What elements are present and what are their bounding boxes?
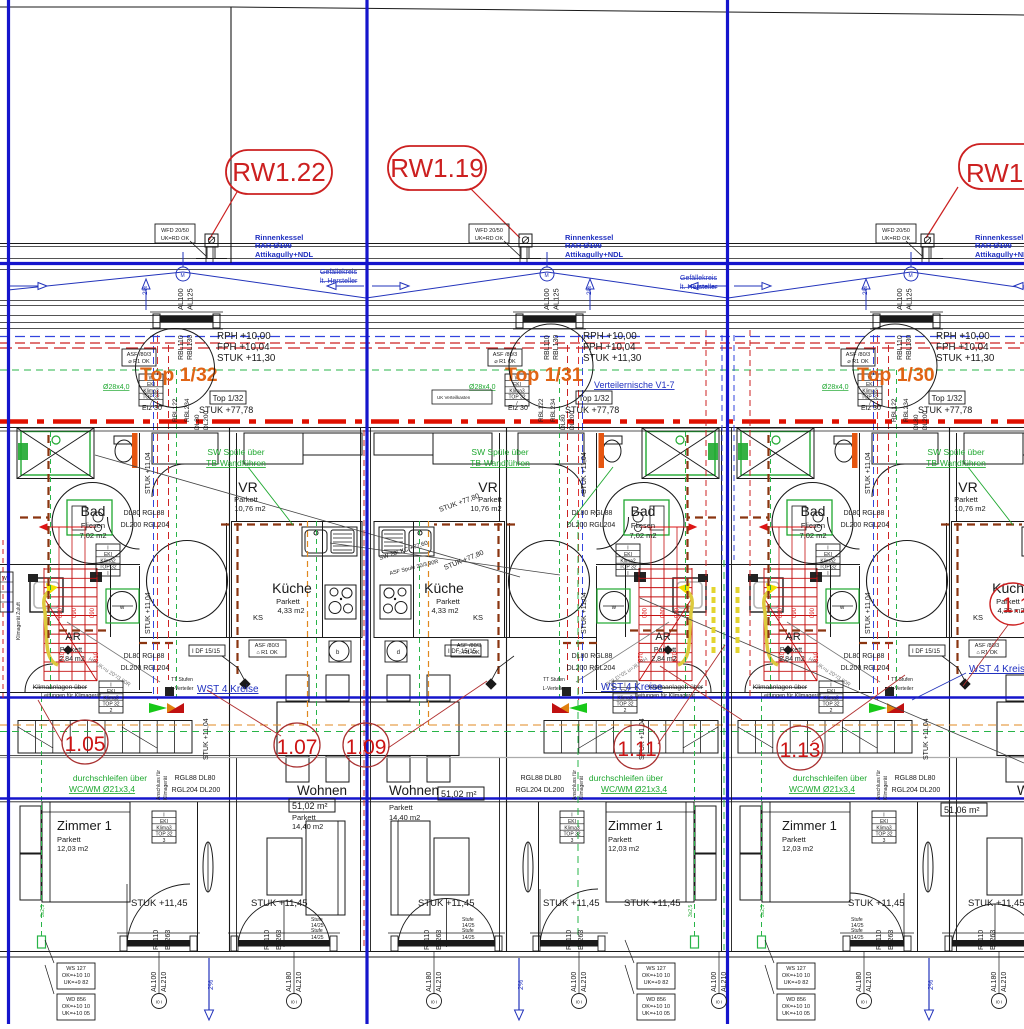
svg-text:AL210: AL210 [296, 972, 303, 992]
svg-text:Klimagerät: Klimagerät [163, 775, 169, 800]
svg-text:UK=RD OK: UK=RD OK [161, 236, 190, 242]
svg-text:STUK +11,04: STUK +11,04 [865, 452, 872, 494]
svg-text:2%: 2% [928, 980, 935, 990]
svg-text:ASF /80/3: ASF /80/3 [457, 643, 481, 649]
svg-text:RBL122: RBL122 [538, 398, 545, 422]
svg-text:Anschluss für: Anschluss für [876, 770, 882, 800]
svg-text:2%: 2% [518, 980, 525, 990]
svg-text:2: 2 [830, 708, 833, 714]
svg-text:Zimmer 1: Zimmer 1 [608, 818, 663, 833]
svg-text:UK=+9 82: UK=+9 82 [784, 980, 809, 986]
svg-text:1.1: 1.1 [1002, 594, 1024, 617]
svg-text:UK=+10 05: UK=+10 05 [642, 1011, 670, 1017]
svg-text:STUK +11,04: STUK +11,04 [581, 452, 588, 494]
svg-text:UK=+10 05: UK=+10 05 [782, 1011, 810, 1017]
svg-text:SW Spüle über: SW Spüle über [207, 447, 264, 457]
svg-text:durchschleifen über: durchschleifen über [793, 773, 867, 783]
svg-text:14/25: 14/25 [311, 935, 324, 941]
svg-text:VR: VR [238, 479, 257, 495]
svg-text:14,40 m2: 14,40 m2 [389, 813, 420, 822]
svg-text:DL200 RGL204: DL200 RGL204 [841, 665, 890, 672]
svg-text:Parkett: Parkett [276, 597, 301, 606]
svg-text:STUK +77,78: STUK +77,78 [565, 405, 619, 415]
svg-text:RAR Ø100: RAR Ø100 [255, 241, 292, 250]
svg-text:I DF 15/15: I DF 15/15 [912, 649, 941, 655]
svg-text:L-Verteiler: L-Verteiler [891, 686, 914, 692]
svg-text:Leitungen für Klimagerät: Leitungen für Klimagerät [41, 693, 101, 699]
svg-text:STUK +11,04: STUK +11,04 [145, 592, 152, 634]
svg-text:Parkett: Parkett [780, 647, 802, 654]
svg-text:WD 856: WD 856 [786, 997, 806, 1003]
svg-text:Parkett: Parkett [389, 803, 414, 812]
svg-text:RL110: RL110 [153, 930, 160, 950]
svg-text:lt. Hersteller: lt. Hersteller [680, 284, 718, 291]
svg-text:12,03 m2: 12,03 m2 [782, 844, 813, 853]
svg-text:Fliesen: Fliesen [81, 521, 105, 530]
svg-text:TB-Wandführen: TB-Wandführen [206, 458, 266, 468]
svg-text:AL180: AL180 [426, 972, 433, 992]
svg-text:I0 I: I0 I [996, 1000, 1002, 1005]
svg-text:STUK +11,45: STUK +11,45 [848, 898, 905, 909]
svg-text:7,02 m2: 7,02 m2 [79, 531, 106, 540]
svg-text:Fliesen: Fliesen [631, 521, 655, 530]
svg-text:RL110: RL110 [566, 930, 573, 950]
svg-text:Klimagerät: Klimagerät [883, 775, 889, 800]
svg-text:DL80: DL80 [194, 414, 201, 430]
svg-text:Bad: Bad [81, 503, 106, 519]
svg-text:DL80 RGL88: DL80 RGL88 [124, 510, 165, 517]
svg-text:UK Verteilkasten: UK Verteilkasten [437, 395, 471, 400]
svg-text:Leitungen für Klimagerät: Leitungen für Klimagerät [635, 693, 695, 699]
svg-text:AL125: AL125 [186, 288, 195, 310]
svg-text:Top 1/32: Top 1/32 [140, 364, 218, 386]
svg-text:10,76 m2: 10,76 m2 [954, 504, 985, 513]
svg-text:Küche: Küche [424, 580, 464, 596]
svg-text:STUK +11,04: STUK +11,04 [865, 592, 872, 634]
svg-text:RBL234: RBL234 [903, 398, 910, 422]
svg-text:AL125: AL125 [552, 288, 561, 310]
svg-text:2%: 2% [142, 285, 149, 295]
svg-text:Leitungen für Klimagerät: Leitungen für Klimagerät [761, 693, 821, 699]
svg-text:Parkett: Parkett [57, 835, 82, 844]
svg-text:Etz 30: Etz 30 [508, 405, 528, 412]
svg-text:DL200 RGL204: DL200 RGL204 [121, 665, 170, 672]
svg-text:2,84 m2: 2,84 m2 [651, 656, 676, 663]
svg-text:AL100: AL100 [542, 288, 551, 310]
svg-text:4,33 m2: 4,33 m2 [431, 606, 458, 615]
svg-text:Bad: Bad [631, 503, 656, 519]
svg-text:RGL88 DL80: RGL88 DL80 [521, 775, 562, 782]
svg-text:AL100: AL100 [571, 972, 578, 992]
svg-text:Bad: Bad [801, 503, 826, 519]
svg-text:BL263: BL263 [888, 930, 895, 950]
svg-text:1.09: 1.09 [346, 736, 387, 759]
svg-text:OK=+10 10: OK=+10 10 [642, 1004, 670, 1010]
svg-text:Top 1/31: Top 1/31 [505, 364, 583, 386]
svg-text:AL210: AL210 [161, 972, 168, 992]
svg-text:UK=RD OK: UK=RD OK [475, 236, 504, 242]
svg-text:AL210: AL210 [866, 972, 873, 992]
svg-text:Parkett: Parkett [954, 495, 979, 504]
svg-text:Attikagully+NDL: Attikagully+NDL [565, 250, 624, 259]
svg-text:I: I [107, 571, 108, 577]
svg-text:12,03 m2: 12,03 m2 [57, 844, 88, 853]
svg-text:STUK +11,30: STUK +11,30 [936, 353, 995, 364]
svg-text:OK=+10 10: OK=+10 10 [782, 973, 810, 979]
svg-text:ASF /80/3: ASF /80/3 [846, 352, 870, 358]
svg-text:Verteilernische V1-7: Verteilernische V1-7 [594, 380, 675, 390]
svg-text:51,02 m²: 51,02 m² [292, 801, 328, 811]
svg-text:VR: VR [958, 479, 977, 495]
svg-text:UK=+9 82: UK=+9 82 [64, 980, 89, 986]
svg-text:DL80 RGL88: DL80 RGL88 [124, 653, 165, 660]
svg-text:RBL110: RBL110 [544, 335, 551, 360]
svg-text:AL210: AL210 [1001, 972, 1008, 992]
svg-text:BL263: BL263 [990, 930, 997, 950]
svg-text:BL263: BL263 [436, 930, 443, 950]
svg-text:RW1.22: RW1.22 [232, 157, 325, 187]
svg-text:DL200 RGL204: DL200 RGL204 [841, 522, 890, 529]
svg-text:RBL130: RBL130 [553, 335, 560, 360]
svg-text:RBL234: RBL234 [550, 398, 557, 422]
svg-text:RPH +10,00: RPH +10,00 [217, 331, 271, 342]
svg-text:RBL110: RBL110 [897, 335, 904, 360]
svg-text:Klimagerät Zuluft: Klimagerät Zuluft [16, 602, 22, 640]
svg-text:AL100: AL100 [895, 288, 904, 310]
svg-text:1.11: 1.11 [617, 738, 656, 761]
svg-text:2,84 m2: 2,84 m2 [59, 656, 84, 663]
svg-text:VR: VR [478, 479, 497, 495]
svg-text:UK=+9 82: UK=+9 82 [644, 980, 669, 986]
svg-text:AR: AR [785, 631, 800, 643]
svg-text:TB-Wandführen: TB-Wandführen [470, 458, 530, 468]
svg-text:RAR Ø100: RAR Ø100 [565, 241, 602, 250]
svg-text:AL210: AL210 [436, 972, 443, 992]
svg-text:RBL234: RBL234 [184, 398, 191, 422]
svg-text:OK=+10 10: OK=+10 10 [62, 973, 90, 979]
svg-text:Fliesen: Fliesen [801, 521, 825, 530]
svg-text:FPH +10,04: FPH +10,04 [583, 342, 636, 353]
svg-text:Zimmer 1: Zimmer 1 [57, 818, 112, 833]
svg-text:ASF /80/3: ASF /80/3 [493, 352, 517, 358]
svg-text:RGL88 DL80: RGL88 DL80 [175, 775, 216, 782]
svg-text:RGL204 DL200: RGL204 DL200 [172, 787, 221, 794]
svg-text:KS: KS [473, 613, 483, 622]
svg-text:RGL88 DL80: RGL88 DL80 [895, 775, 936, 782]
svg-text:WFD 20/50: WFD 20/50 [882, 228, 910, 234]
svg-text:RW1.1: RW1.1 [966, 158, 1024, 188]
svg-text:RPH +10,00: RPH +10,00 [936, 331, 990, 342]
svg-text:Attikagully+NDL: Attikagully+NDL [975, 250, 1024, 259]
svg-text:KS: KS [973, 613, 983, 622]
svg-text:Top 1/32: Top 1/32 [579, 394, 610, 403]
svg-text:3x2,5: 3x2,5 [40, 905, 46, 917]
svg-text:⌂ R1 OK: ⌂ R1 OK [256, 650, 278, 656]
svg-text:Anschluss für: Anschluss für [572, 770, 578, 800]
svg-text:TT Stufen: TT Stufen [891, 677, 913, 683]
svg-text:Etz 30: Etz 30 [142, 405, 162, 412]
svg-text:WFD 20/50: WFD 20/50 [475, 228, 503, 234]
svg-text:14/25: 14/25 [462, 935, 475, 941]
svg-text:14/25: 14/25 [462, 923, 475, 929]
svg-text:1.13: 1.13 [780, 739, 821, 762]
svg-text:Klimagerät: Klimagerät [579, 775, 585, 800]
svg-text:2%: 2% [862, 285, 869, 295]
svg-text:DL200 RGL204: DL200 RGL204 [567, 665, 616, 672]
svg-text:Parkett: Parkett [608, 835, 633, 844]
svg-text:M: M [181, 273, 185, 279]
svg-text:RL110: RL110 [264, 930, 271, 950]
svg-text:Top 1/32: Top 1/32 [213, 394, 244, 403]
svg-text:STUK +11,04: STUK +11,04 [145, 452, 152, 494]
svg-text:AL100: AL100 [711, 972, 718, 992]
svg-text:Wohnen: Wohnen [1017, 783, 1024, 798]
svg-text:WD 856: WD 856 [646, 997, 666, 1003]
svg-text:RGL204 DL200: RGL204 DL200 [892, 787, 941, 794]
svg-text:STUK +11,04: STUK +11,04 [203, 718, 210, 760]
svg-text:Anschluss für: Anschluss für [156, 770, 162, 800]
svg-text:RBL130: RBL130 [906, 335, 913, 360]
svg-text:14/25: 14/25 [311, 923, 324, 929]
svg-text:WST 4 Kreise: WST 4 Kreise [197, 684, 259, 695]
svg-text:Parkett: Parkett [60, 647, 82, 654]
svg-text:14,40 m2: 14,40 m2 [292, 822, 323, 831]
svg-text:AL180: AL180 [286, 972, 293, 992]
svg-text:AR: AR [655, 631, 670, 643]
svg-text:51,06 m²: 51,06 m² [944, 805, 980, 815]
svg-text:AL100: AL100 [151, 972, 158, 992]
svg-text:RGL204 DL200: RGL204 DL200 [516, 787, 565, 794]
svg-text:M: M [909, 273, 913, 279]
svg-text:RPH +10,00: RPH +10,00 [583, 331, 637, 342]
svg-text:1.05: 1.05 [65, 733, 106, 756]
svg-text:Etz 30: Etz 30 [861, 405, 881, 412]
svg-text:I0 I: I0 I [861, 1000, 867, 1005]
svg-text:DL80: DL80 [913, 414, 920, 430]
svg-text:ASF /80/3: ASF /80/3 [255, 643, 279, 649]
svg-text:I0 I: I0 I [716, 1000, 722, 1005]
svg-text:TT Stufen: TT Stufen [543, 677, 565, 683]
svg-text:51,02 m²: 51,02 m² [441, 789, 477, 799]
svg-text:WFD 20/50: WFD 20/50 [161, 228, 189, 234]
svg-text:Klimaanlagen über: Klimaanlagen über [33, 684, 88, 691]
svg-text:durchschleifen über: durchschleifen über [73, 773, 147, 783]
svg-text:DL80 RGL88: DL80 RGL88 [572, 510, 613, 517]
svg-text:WC/WM Ø21x3,4: WC/WM Ø21x3,4 [601, 784, 667, 794]
svg-text:WC/WM Ø21x3,4: WC/WM Ø21x3,4 [69, 784, 135, 794]
svg-text:AL210: AL210 [581, 972, 588, 992]
svg-text:DL80 RGL88: DL80 RGL88 [844, 510, 885, 517]
svg-text:14/25: 14/25 [851, 923, 864, 929]
svg-text:DL200 RGL204: DL200 RGL204 [121, 522, 170, 529]
svg-text:Ø28x4,0: Ø28x4,0 [103, 384, 130, 391]
svg-text:RBL110: RBL110 [178, 335, 185, 360]
svg-text:Wohnen: Wohnen [389, 783, 439, 798]
svg-text:AL210: AL210 [721, 972, 728, 992]
svg-text:I: I [627, 571, 628, 577]
svg-text:2: 2 [624, 708, 627, 714]
svg-text:WS 127: WS 127 [66, 966, 86, 972]
svg-text:RL110: RL110 [876, 930, 883, 950]
svg-text:M: M [545, 273, 549, 279]
svg-text:AL180: AL180 [856, 972, 863, 992]
svg-text:STUK +11,04: STUK +11,04 [581, 592, 588, 634]
svg-text:Parkett: Parkett [234, 495, 259, 504]
svg-text:2,84 m2: 2,84 m2 [779, 656, 804, 663]
svg-text:KS: KS [253, 613, 263, 622]
svg-text:4,33 m2: 4,33 m2 [277, 606, 304, 615]
svg-text:DL80: DL80 [560, 414, 567, 430]
svg-text:I0 I: I0 I [576, 1000, 582, 1005]
svg-text:Attikagully+NDL: Attikagully+NDL [255, 250, 314, 259]
svg-text:I: I [827, 571, 828, 577]
svg-text:STUK +11,04: STUK +11,04 [923, 718, 930, 760]
svg-text:ASF /80/3: ASF /80/3 [975, 643, 999, 649]
svg-text:durchschleifen über: durchschleifen über [589, 773, 663, 783]
svg-text:SW Spüle über: SW Spüle über [471, 447, 528, 457]
svg-text:BL263: BL263 [165, 930, 172, 950]
svg-text:OK=+10 10: OK=+10 10 [642, 973, 670, 979]
svg-text:DL200 RGL204: DL200 RGL204 [567, 522, 616, 529]
svg-text:STUK +11,45: STUK +11,45 [418, 898, 475, 909]
svg-text:3x2,5: 3x2,5 [760, 905, 766, 917]
svg-text:Ø28x4,0: Ø28x4,0 [822, 384, 849, 391]
svg-text:7,02 m2: 7,02 m2 [799, 531, 826, 540]
svg-text:7,02 m2: 7,02 m2 [629, 531, 656, 540]
svg-text:3: 3 [163, 838, 166, 844]
svg-text:RW1.19: RW1.19 [390, 153, 483, 183]
svg-text:lt. Hersteller: lt. Hersteller [320, 278, 358, 285]
svg-text:⌂ R1 OK: ⌂ R1 OK [458, 650, 480, 656]
svg-text:L-Verteiler: L-Verteiler [171, 686, 194, 692]
svg-text:L-Verteiler: L-Verteiler [543, 686, 566, 692]
svg-text:Gefällekreis: Gefällekreis [680, 275, 717, 282]
svg-text:Gefällekreis: Gefällekreis [320, 269, 357, 276]
svg-text:3: 3 [571, 838, 574, 844]
svg-text:TB-Wandführen: TB-Wandführen [926, 458, 986, 468]
svg-text:TT Stufen: TT Stufen [171, 677, 193, 683]
svg-text:UK=+10 05: UK=+10 05 [62, 1011, 90, 1017]
svg-text:Küche: Küche [272, 580, 312, 596]
svg-text:Parkett: Parkett [436, 597, 461, 606]
svg-text:AR: AR [65, 631, 80, 643]
svg-text:Wohnen: Wohnen [297, 783, 347, 798]
svg-text:FPH +10,04: FPH +10,04 [217, 342, 270, 353]
svg-text:3: 3 [883, 838, 886, 844]
svg-text:OK=+10 10: OK=+10 10 [62, 1004, 90, 1010]
svg-text:I DF 15/15: I DF 15/15 [192, 649, 221, 655]
svg-text:Top 1/32: Top 1/32 [932, 394, 963, 403]
svg-text:14/25: 14/25 [851, 935, 864, 941]
svg-text:2: 2 [110, 708, 113, 714]
svg-text:FPH +10,04: FPH +10,04 [936, 342, 989, 353]
svg-text:AL180: AL180 [991, 972, 998, 992]
svg-text:3x2,5: 3x2,5 [688, 905, 694, 917]
svg-text:I0 I: I0 I [156, 1000, 162, 1005]
svg-text:I0 I: I0 I [431, 1000, 437, 1005]
svg-text:Parkett: Parkett [782, 835, 807, 844]
svg-text:WST 4 Kreise: WST 4 Kreise [969, 664, 1024, 675]
svg-text:WS 127: WS 127 [786, 966, 806, 972]
svg-text:RL110: RL110 [424, 930, 431, 950]
svg-text:WST 4 Kreise: WST 4 Kreise [601, 682, 663, 693]
svg-text:Parkett: Parkett [292, 813, 317, 822]
svg-text:Klimaanlagen über: Klimaanlagen über [753, 684, 808, 691]
svg-text:I0 I: I0 I [291, 1000, 297, 1005]
svg-text:RBL122: RBL122 [172, 398, 179, 422]
svg-text:Zimmer 1: Zimmer 1 [782, 818, 837, 833]
svg-text:RAR Ø100: RAR Ø100 [975, 241, 1012, 250]
svg-text:STUK +11,45: STUK +11,45 [543, 898, 600, 909]
svg-text:DL80 RGL88: DL80 RGL88 [844, 653, 885, 660]
svg-text:RL110: RL110 [978, 930, 985, 950]
svg-text:STUK +11,30: STUK +11,30 [217, 353, 276, 364]
svg-text:WS 127: WS 127 [646, 966, 666, 972]
svg-text:OK=+10 10: OK=+10 10 [782, 1004, 810, 1010]
svg-text:AL125: AL125 [905, 288, 914, 310]
svg-text:BL263: BL263 [578, 930, 585, 950]
svg-text:STUK +11,45: STUK +11,45 [968, 898, 1024, 909]
svg-text:STUK +77,78: STUK +77,78 [199, 405, 253, 415]
svg-text:Top 1/30: Top 1/30 [857, 364, 935, 386]
svg-text:Parkett: Parkett [478, 495, 503, 504]
svg-text:AL100: AL100 [176, 288, 185, 310]
svg-text:12,03 m2: 12,03 m2 [608, 844, 639, 853]
svg-text:2%: 2% [208, 980, 215, 990]
svg-text:2%: 2% [586, 285, 593, 295]
svg-text:RBL122: RBL122 [891, 398, 898, 422]
svg-text:STUK +11,45: STUK +11,45 [251, 898, 308, 909]
svg-text:SW Spüle über: SW Spüle über [927, 447, 984, 457]
svg-text:STUK +77,78: STUK +77,78 [918, 405, 972, 415]
svg-text:WC/WM Ø21x3,4: WC/WM Ø21x3,4 [789, 784, 855, 794]
svg-text:Parkett: Parkett [654, 647, 676, 654]
svg-text:STUK +11,45: STUK +11,45 [131, 898, 188, 909]
svg-text:BL263: BL263 [276, 930, 283, 950]
svg-text:WD 856: WD 856 [66, 997, 86, 1003]
svg-text:10,76 m2: 10,76 m2 [470, 504, 501, 513]
svg-text:STUK +11,45: STUK +11,45 [624, 898, 681, 909]
svg-text:RBL130: RBL130 [187, 335, 194, 360]
svg-text:10,76 m2: 10,76 m2 [234, 504, 265, 513]
svg-text:1.07: 1.07 [277, 736, 318, 759]
